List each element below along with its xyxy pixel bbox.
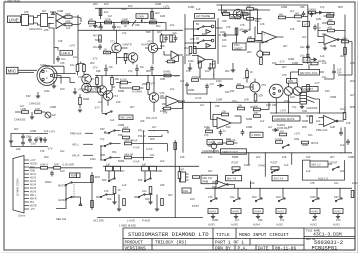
svg-text:100n: 100n	[352, 181, 358, 185]
svg-text:LINK A: LINK A	[40, 162, 48, 166]
svg-text:1uF: 1uF	[106, 162, 111, 166]
svg-text:10u: 10u	[31, 142, 36, 146]
svg-text:220R: 220R	[246, 125, 252, 129]
svg-text:PFL: PFL	[112, 150, 117, 154]
node MIX 1-2 label	[310, 161, 328, 167]
transistor VT8A	[78, 74, 91, 84]
svg-text:4K7: 4K7	[14, 127, 19, 131]
svg-text:100p: 100p	[220, 30, 226, 34]
svg-text:PART 1 OF 1: PART 1 OF 1	[215, 241, 244, 246]
svg-text:AP/GANG1: AP/GANG1	[29, 27, 43, 31]
capacitor C52	[339, 128, 343, 137]
svg-text:22K: 22K	[340, 169, 345, 173]
svg-text:1K0: 1K0	[223, 9, 228, 13]
resistor R95	[161, 199, 164, 206]
svg-text:B2: B2	[196, 22, 200, 26]
svg-text:22K: 22K	[222, 109, 227, 113]
switch A5b	[312, 198, 319, 202]
resistor R103	[302, 141, 319, 145]
node AFL-R	[72, 154, 93, 158]
svg-text:GANTR: GANTR	[123, 43, 132, 47]
wire	[56, 172, 92, 210]
svg-text:CHASSIS: CHASSIS	[29, 102, 41, 106]
svg-text:4u7: 4u7	[152, 125, 157, 129]
svg-text:POST: POST	[271, 161, 278, 165]
svg-text:43C1-3.DSM: 43C1-3.DSM	[313, 231, 342, 237]
connector XLR1	[18, 63, 57, 86]
node GATE label	[207, 140, 223, 145]
svg-text:63V: 63V	[210, 62, 215, 66]
svg-text:1M0: 1M0	[316, 17, 322, 21]
resistor R19	[247, 18, 261, 24]
capacitor C9	[242, 30, 248, 34]
resistor R34	[338, 36, 352, 75]
svg-text:AUX5: AUX5	[232, 210, 239, 214]
resistor R41	[83, 65, 86, 72]
svg-text:6K8: 6K8	[146, 30, 151, 34]
svg-text:MIC: MIC	[8, 69, 17, 74]
transistor VT2b current source	[124, 52, 138, 62]
svg-text:4u7: 4u7	[350, 93, 355, 97]
wire	[249, 153, 292, 189]
resistor R102	[275, 137, 283, 144]
op-amp U2B	[192, 56, 213, 64]
resistor R74	[91, 201, 94, 208]
svg-text:10u: 10u	[322, 75, 327, 79]
transistor VT2	[147, 40, 158, 53]
resistor R90	[149, 187, 152, 194]
svg-text:1K0: 1K0	[276, 195, 281, 199]
wire gain row	[78, 8, 162, 24]
resistor R52	[237, 82, 244, 88]
switch SW2	[102, 111, 112, 115]
resistor R27	[163, 70, 179, 79]
op-amp U2A	[164, 51, 183, 59]
potentiometer A2	[276, 209, 286, 214]
svg-text:6K8: 6K8	[302, 125, 307, 129]
resistor R25	[199, 61, 202, 79]
svg-text:4u7: 4u7	[290, 9, 295, 13]
wire	[324, 13, 335, 17]
ground psu	[9, 134, 14, 147]
svg-text:MIX-L: MIX-L	[30, 195, 37, 197]
svg-text:10u: 10u	[60, 149, 65, 153]
resistor R93	[193, 176, 200, 179]
bus mid lower	[201, 152, 352, 154]
svg-text:GATE: GATE	[58, 198, 65, 202]
resistor R23b	[186, 47, 196, 58]
ground	[36, 92, 40, 98]
svg-text:AUX1: AUX1	[333, 223, 340, 227]
resistor R21	[235, 28, 244, 36]
svg-text:100R: 100R	[348, 155, 354, 159]
svg-text:10K: 10K	[260, 22, 265, 26]
svg-text:33K: 33K	[215, 104, 220, 108]
svg-text:1uF: 1uF	[306, 169, 311, 173]
svg-text:2K2: 2K2	[312, 218, 317, 222]
svg-text:GND: GND	[30, 171, 35, 173]
svg-text:2n2: 2n2	[160, 159, 165, 163]
svg-text:AUX 3-4: AUX 3-4	[274, 177, 284, 181]
svg-text:1M0: 1M0	[100, 153, 106, 157]
ground d1	[323, 45, 327, 50]
svg-text:63V: 63V	[100, 127, 105, 131]
capacitor C21	[135, 65, 144, 73]
svg-text:10u: 10u	[61, 57, 66, 61]
wire	[218, 28, 237, 43]
svg-text:1K: 1K	[118, 188, 121, 192]
transistor VT8B	[78, 83, 91, 93]
wire	[101, 131, 167, 161]
svg-text:PFL-R: PFL-R	[138, 134, 146, 138]
capacitor C42	[34, 137, 38, 143]
capacitor C14	[300, 44, 310, 50]
svg-text:MUTE: MUTE	[311, 141, 319, 145]
svg-text:RMB: RMB	[203, 180, 209, 184]
svg-text:47K: 47K	[186, 69, 191, 73]
svg-text:63V: 63V	[334, 195, 339, 199]
resistor R31	[309, 7, 317, 13]
svg-text:PAN: PAN	[288, 79, 293, 83]
svg-text:22u: 22u	[93, 45, 98, 49]
svg-text:4K7: 4K7	[282, 65, 287, 69]
svg-text:10u: 10u	[73, 55, 78, 59]
svg-text:VT8B: VT8B	[78, 88, 85, 92]
switch SW3	[307, 96, 320, 103]
svg-text:1K0: 1K0	[290, 95, 295, 99]
svg-text:33K: 33K	[135, 23, 140, 27]
switch SW1a	[194, 21, 216, 36]
wire rail	[95, 65, 180, 76]
op-amp U2C	[257, 32, 284, 44]
svg-text:22K: 22K	[140, 119, 145, 123]
svg-text:S-GANG: S-GANG	[132, 90, 142, 94]
resistor R42 link	[21, 107, 29, 113]
node DRIVE label	[230, 15, 241, 19]
resistor R91	[174, 143, 177, 150]
svg-text:MIX 7-8: MIX 7-8	[227, 177, 237, 181]
svg-text:220R: 220R	[281, 5, 287, 9]
capacitor C21b	[150, 66, 164, 76]
svg-text:AUX3: AUX3	[209, 210, 216, 214]
svg-text:3-PAD: 3-PAD	[258, 164, 266, 168]
resistor R14	[157, 30, 163, 42]
svg-text:10K: 10K	[290, 27, 295, 31]
wire mic pair	[44, 66, 75, 83]
svg-text:+17V: +17V	[243, 76, 249, 80]
wire	[235, 103, 270, 124]
potentiometer A2b	[333, 209, 343, 214]
svg-text:EXP: EXP	[179, 168, 184, 172]
node MIX 7-8 label	[226, 175, 242, 180]
svg-text:100n: 100n	[44, 89, 50, 93]
resistor R22b	[263, 52, 270, 55]
svg-text:220R: 220R	[212, 218, 218, 222]
svg-text:POST: POST	[232, 161, 239, 165]
ground	[256, 217, 260, 219]
svg-text:4K7: 4K7	[330, 155, 335, 159]
ground g3	[231, 63, 235, 72]
svg-text:100n: 100n	[204, 125, 210, 129]
connector insert jack	[300, 93, 307, 105]
svg-text:4u7: 4u7	[268, 125, 273, 129]
wire loop	[302, 160, 344, 180]
svg-text:B3: B3	[196, 37, 200, 41]
svg-text:CHANNEL MUTE: CHANNEL MUTE	[274, 117, 295, 121]
capacitor C13	[313, 25, 321, 31]
svg-text:22K: 22K	[222, 19, 227, 23]
svg-text:100R: 100R	[156, 169, 162, 173]
switch row PFL	[104, 130, 121, 134]
node FDR label	[70, 173, 81, 178]
wire line out pair	[48, 18, 55, 29]
svg-text:CHASSIS: CHASSIS	[14, 118, 26, 122]
svg-text:2n2: 2n2	[340, 143, 345, 147]
svg-text:-17V: -17V	[279, 60, 285, 64]
resistor R55	[254, 104, 261, 110]
resistor R99	[218, 138, 238, 144]
svg-text:1Ø: 1Ø	[52, 113, 55, 117]
node AFL-L	[72, 143, 93, 147]
svg-text:AUX3: AUX3	[208, 223, 215, 227]
resistor R49	[79, 94, 90, 109]
capacitor C23	[205, 82, 214, 90]
svg-text:6K8: 6K8	[250, 105, 255, 109]
svg-text:10u: 10u	[230, 195, 235, 199]
resistor R23	[184, 46, 192, 54]
ground	[117, 195, 121, 212]
svg-text:10R: 10R	[35, 107, 40, 111]
svg-text:+17V: +17V	[280, 109, 286, 113]
svg-text:MUTE: MUTE	[306, 114, 314, 118]
svg-text:PFL-OUT: PFL-OUT	[146, 116, 158, 120]
node DIRECT OUT label	[221, 149, 247, 154]
svg-text:1M0: 1M0	[302, 109, 308, 113]
svg-text:F-PAD5: F-PAD5	[252, 133, 262, 137]
svg-text:-17V: -17V	[94, 106, 100, 110]
node ALT PHASE label	[195, 14, 215, 19]
svg-text:-17V: -17V	[174, 74, 180, 78]
node PAN label	[287, 79, 298, 84]
resistor R82	[125, 138, 134, 145]
svg-text:47K: 47K	[282, 73, 287, 77]
diode D5	[217, 84, 224, 87]
svg-text:50K: 50K	[138, 178, 143, 182]
resistor R22	[248, 35, 255, 42]
svg-text:33K: 33K	[300, 5, 305, 9]
transistor VT10	[208, 141, 217, 153]
capacitor C60	[346, 139, 350, 145]
resistor R8	[89, 17, 96, 24]
wire feedback	[318, 15, 345, 48]
resistor R19b	[247, 4, 254, 10]
potentiometer A4	[253, 209, 263, 214]
svg-text:10u: 10u	[314, 11, 319, 15]
svg-text:47K: 47K	[328, 25, 333, 29]
resistor R86	[114, 166, 121, 171]
node MIC label	[7, 67, 19, 74]
svg-text:100R: 100R	[188, 5, 194, 9]
svg-text:1K: 1K	[91, 77, 94, 81]
ground h1	[300, 104, 304, 109]
svg-text:10K: 10K	[160, 94, 165, 98]
svg-text:STUDIOMASTER DIAMOND LTD: STUDIOMASTER DIAMOND LTD	[128, 231, 209, 238]
svg-text:4.7uF: 4.7uF	[146, 147, 153, 151]
svg-text:1K0: 1K0	[190, 37, 195, 41]
svg-text:MIX-3A: MIX-3A	[125, 138, 134, 142]
aux pot group 5	[310, 188, 320, 226]
connector JK1 line jack	[22, 14, 48, 27]
svg-text:LINE: LINE	[9, 17, 19, 22]
svg-text:SEE 10a: SEE 10a	[56, 217, 67, 221]
svg-text:10n: 10n	[109, 65, 114, 69]
switch SW11	[144, 178, 151, 182]
svg-text:10K: 10K	[115, 77, 120, 81]
wire	[183, 14, 223, 153]
svg-text:10K: 10K	[160, 44, 165, 48]
resistor R61	[306, 114, 314, 123]
svg-text:MONO INPUT CIRCUIT: MONO INPUT CIRCUIT	[239, 232, 289, 238]
svg-text:100R: 100R	[142, 82, 148, 86]
svg-text:47K: 47K	[240, 23, 245, 27]
svg-text:48V STD -8.0V: 48V STD -8.0V	[300, 71, 318, 75]
svg-text:VT1: VT1	[110, 40, 115, 44]
capacitor C15	[300, 53, 310, 59]
wire mute rail	[270, 99, 345, 113]
svg-text:FDR: FDR	[71, 174, 76, 178]
svg-text:4u7: 4u7	[210, 82, 215, 86]
svg-text:AUX4: AUX4	[254, 210, 261, 214]
svg-text:4u7: 4u7	[200, 103, 205, 107]
node LINE B label	[60, 51, 73, 56]
resistor R26	[213, 61, 216, 79]
svg-text:PRE-AUX: PRE-AUX	[70, 132, 82, 136]
svg-text:47K: 47K	[254, 111, 259, 115]
resistor R46	[142, 82, 150, 90]
svg-text:6K8: 6K8	[226, 137, 231, 141]
svg-text:VT8A: VT8A	[78, 75, 85, 79]
resistor R83	[125, 152, 134, 159]
capacitor C7b	[174, 36, 178, 42]
svg-text:VERSIONS: VERSIONS	[125, 247, 146, 252]
switch A2	[278, 198, 285, 202]
svg-text:GAIN: GAIN	[138, 14, 144, 18]
wire pfl feed	[148, 131, 168, 137]
svg-text:2n2: 2n2	[256, 155, 261, 159]
resistor R100	[206, 126, 213, 133]
wire top right rail	[307, 5, 309, 64]
svg-text:50R: 50R	[54, 162, 59, 166]
svg-text:DATE: DATE	[258, 247, 269, 252]
node MIC B label	[88, 87, 100, 93]
svg-text:10K: 10K	[238, 103, 243, 107]
svg-text:560R: 560R	[95, 38, 101, 42]
IC label U3b	[303, 58, 310, 63]
resistor R12b	[104, 47, 117, 54]
PSU decoupling cluster	[9, 130, 56, 151]
svg-text:47p: 47p	[122, 31, 127, 35]
switch SW1b	[194, 36, 216, 49]
svg-text:-17V: -17V	[47, 147, 53, 151]
svg-text:22u: 22u	[173, 31, 178, 35]
svg-text:10n: 10n	[322, 32, 327, 36]
capacitor C4a	[95, 24, 103, 30]
svg-text:100n: 100n	[90, 157, 96, 161]
svg-text:10K: 10K	[248, 35, 253, 39]
bus aux top	[103, 165, 199, 167]
svg-text:4u7: 4u7	[108, 14, 113, 18]
svg-text:GANTR: GANTR	[141, 43, 150, 47]
svg-text:2K2: 2K2	[184, 46, 189, 50]
svg-text:100R: 100R	[160, 109, 166, 113]
wire	[117, 54, 134, 65]
svg-text:33K: 33K	[118, 133, 123, 137]
resistor R88	[142, 166, 149, 171]
pin name labels	[30, 160, 37, 211]
aux pot group template x4	[208, 188, 218, 226]
capacitor C22	[180, 79, 189, 88]
svg-text:CHANNEL MM: CHANNEL MM	[202, 149, 219, 153]
svg-text:47K: 47K	[310, 181, 315, 185]
svg-text:AUX2: AUX2	[30, 177, 37, 180]
svg-text:00-11-86: 00-11-86	[275, 247, 296, 252]
svg-text:INSERT: INSERT	[304, 87, 314, 91]
capacitor C40b	[21, 140, 25, 146]
svg-text:10n: 10n	[170, 23, 175, 27]
resistor R81	[123, 136, 139, 142]
svg-text:MIX-3A: MIX-3A	[125, 152, 134, 156]
node POST pot 3	[331, 161, 340, 171]
svg-text:+17V: +17V	[149, 82, 155, 86]
svg-text:100R: 100R	[288, 57, 294, 61]
wire	[145, 171, 151, 180]
diode D2b	[316, 11, 324, 14]
svg-text:10K: 10K	[24, 10, 29, 14]
svg-text:100R: 100R	[150, 17, 156, 21]
capacitor C50	[219, 129, 227, 136]
dashed gang link	[73, 184, 75, 198]
switch A2b	[335, 198, 342, 202]
svg-text:100n: 100n	[310, 195, 316, 199]
ground row-left	[93, 23, 97, 28]
op-amp U1B	[56, 21, 65, 29]
op-amp U3A	[318, 35, 345, 45]
svg-text:33K: 33K	[96, 69, 101, 73]
svg-text:AUX6: AUX6	[30, 191, 37, 194]
node MIX S-D label	[201, 175, 218, 184]
resistor R92	[178, 166, 181, 182]
switch A5	[233, 198, 240, 202]
svg-text:220R: 220R	[118, 123, 124, 127]
svg-text:POST: POST	[192, 204, 199, 208]
ground	[73, 88, 77, 94]
ground g2	[208, 63, 212, 70]
ground	[336, 217, 340, 219]
svg-text:AUX5: AUX5	[311, 210, 318, 214]
svg-text:1K: 1K	[250, 70, 253, 74]
svg-text:PFL: PFL	[30, 202, 35, 204]
switch SW5	[58, 182, 92, 188]
svg-text:10u: 10u	[37, 136, 42, 140]
svg-text:2n2: 2n2	[105, 50, 110, 54]
svg-text:50K: 50K	[102, 178, 107, 182]
ground	[279, 217, 283, 219]
svg-text:4K7: 4K7	[172, 60, 177, 64]
resistor R110	[351, 191, 354, 198]
svg-text:10u: 10u	[297, 19, 302, 23]
svg-text:2K2: 2K2	[247, 50, 252, 54]
svg-text:10n: 10n	[170, 87, 175, 91]
